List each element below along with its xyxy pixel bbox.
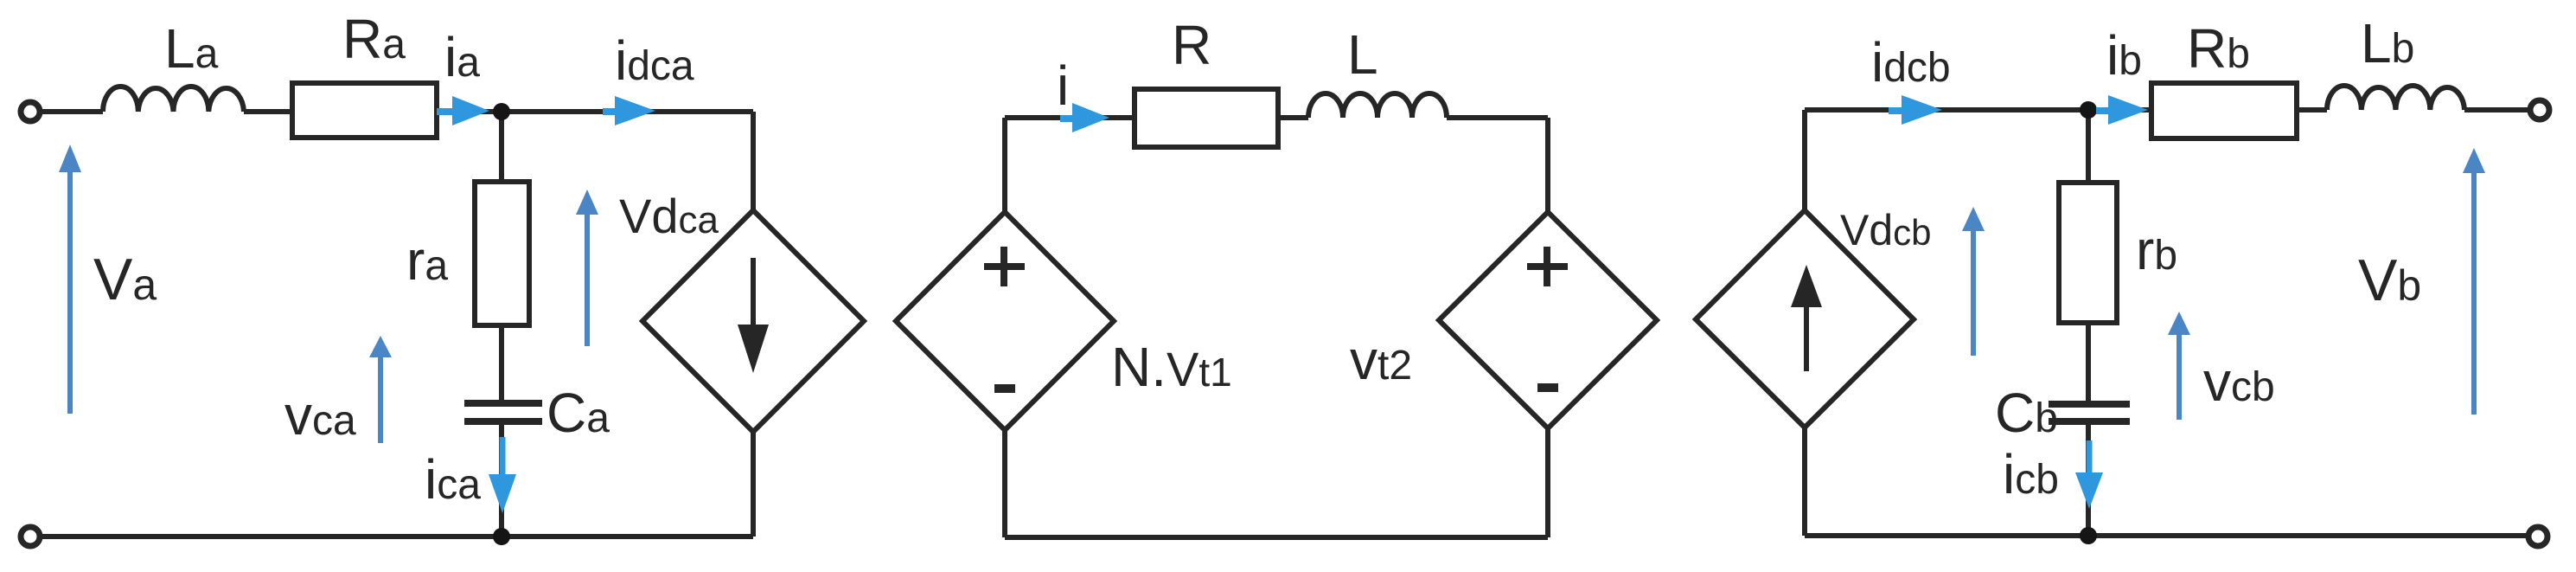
svg-text:L: L: [1347, 23, 1378, 86]
svg-text:i: i: [1057, 55, 1069, 117]
svg-text:R: R: [1172, 14, 1211, 76]
svg-text:Vdcb: Vdcb: [1840, 206, 1932, 254]
